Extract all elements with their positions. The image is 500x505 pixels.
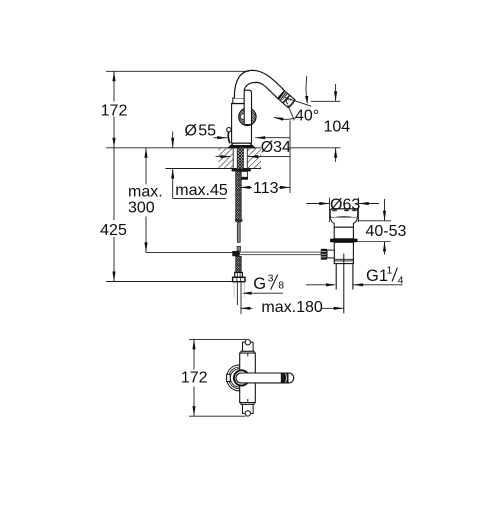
dimension max.180 [240,307,252,309]
dimension G1 1/4 [306,284,334,286]
outlet-level reference line (104) [311,100,341,102]
mounting hole [233,148,248,168]
base circles (top view) [227,365,253,391]
svg-text:425: 425 [100,222,127,239]
dimension Ø34 [216,156,231,158]
spout outer curve [234,70,284,98]
40deg upper arc arrow [305,76,308,100]
counter-top reference line left [106,147,261,149]
svg-text:max.45: max.45 [175,182,228,199]
pull rod [237,222,240,242]
pop-up rod reference line (max.300) [146,251,233,253]
top circle [245,340,250,345]
svg-text:Ø63: Ø63 [330,196,360,213]
lever column [244,90,251,124]
svg-text:3: 3 [268,272,274,284]
svg-text:G: G [253,275,266,293]
counter bottom edge [219,168,262,170]
braided hose lower [236,256,242,272]
shoulder top [241,351,254,353]
drain body lower [334,242,353,263]
dimension 172 bottom view [193,339,195,369]
spout tube (top view) [240,353,256,403]
drain flange rim [330,209,358,218]
40deg outlet face line [288,105,295,121]
40deg axis extension line [284,97,311,106]
svg-text:8: 8 [278,280,284,292]
body step line [232,103,245,105]
base flange [228,143,255,148]
svg-text:4: 4 [398,274,404,286]
G3/8 nipple tube [236,282,238,305]
body collar [233,98,244,103]
lever end cap line [287,373,289,383]
40deg lower arc arrow [274,117,296,119]
svg-text:300: 300 [128,200,155,217]
dimension Ø55 [214,137,228,139]
faucet main body [232,103,252,143]
lever handle (top view) [236,373,294,383]
svg-text:Ø 55: Ø 55 [185,122,217,139]
svg-text:40°: 40° [295,108,319,125]
knurled rod connector [321,249,327,260]
drain o-ring seal [330,239,358,243]
hose nut large [233,277,245,281]
aerator assembly [278,91,296,109]
dimension line max.300 [145,148,147,185]
dimension 40-53 [358,220,391,222]
washer [232,169,251,172]
braided hose upper [236,171,242,219]
dimension max.45 [172,132,174,148]
G3/8 leader line [251,292,284,294]
drain body upper [334,227,353,239]
counter-top reference line right [290,147,341,149]
dimension Ø63 [329,198,331,223]
svg-text:G1: G1 [366,267,388,285]
rod lower bit [237,246,240,251]
threaded shank [238,148,244,168]
shank left lines [232,148,234,168]
dimension 113 [240,186,252,188]
stud with nut [240,171,247,177]
drain pull rod vertical [343,254,345,314]
spout-top reference line [106,70,249,72]
spout tube fill [234,70,284,98]
hose-end reference line (425) [106,281,233,283]
drain slots [332,210,337,212]
dimension 104 [335,84,337,101]
spout inner curve [244,82,277,98]
drain tailpipe [335,264,337,290]
neck top [243,342,254,351]
shoulder bottom [241,403,254,405]
pop-up rod [228,132,230,144]
bottom circle [245,411,250,416]
svg-text:40-53: 40-53 [366,223,407,240]
hose nut small [235,272,243,277]
horizontal pop-up rod to drain [240,252,322,255]
svg-text:113: 113 [253,180,279,197]
pop-up rod knob [227,128,231,132]
svg-text:Ø34: Ø34 [261,139,291,156]
counter-bottom reference line (max.45) [165,168,218,170]
lever grip band [281,373,288,383]
bottom view top extension line [189,338,246,340]
lever boss ring [234,370,249,385]
svg-text:172: 172 [181,370,208,387]
drain neck taper [330,218,357,228]
countertop hatched section [219,148,262,168]
hose end cap [235,219,243,222]
svg-text:1: 1 [387,265,393,277]
svg-text:max.180: max.180 [261,299,322,316]
svg-text:104: 104 [324,119,351,136]
pop-up knob tab (top view) [227,374,231,381]
neck bottom [243,404,254,413]
svg-text:172: 172 [101,103,128,120]
shank right lines [242,148,244,168]
dimension line 172/425 [113,71,115,101]
connector link [327,250,334,258]
outlet vertical extension line [289,121,291,194]
svg-text:max.: max. [128,184,163,201]
drain dome ring [334,218,353,221]
rod joint block [232,251,239,256]
bottom view bottom extension line [189,415,246,417]
handle knob (hatched circle) [239,108,256,125]
